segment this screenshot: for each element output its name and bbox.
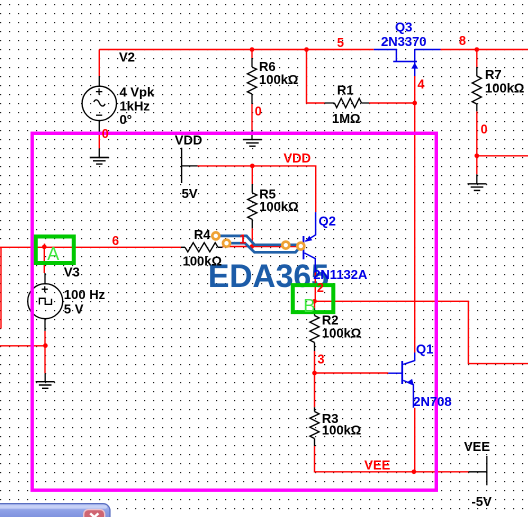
- svg-text:2N3370: 2N3370: [381, 34, 427, 49]
- ground under V3: [36, 382, 55, 389]
- VDD power symbol bar: [182, 148, 198, 183]
- transistor Q2 (PNP 2N1132A): [304, 212, 316, 272]
- transistor Q3 (JFET): [374, 50, 441, 77]
- junction VDD-R5: [250, 164, 255, 169]
- junction node 8-R7: [475, 47, 480, 52]
- svg-text:100 Hz: 100 Hz: [64, 287, 106, 302]
- svg-text:6: 6: [112, 234, 119, 248]
- resistor R2 body: [310, 316, 319, 343]
- V2 bottom lead: [98, 120, 100, 135]
- svg-text:2N1132A: 2N1132A: [313, 267, 368, 282]
- junction node 5-R6: [250, 47, 255, 52]
- svg-text:0: 0: [255, 105, 262, 119]
- wire R2 top: [314, 301, 316, 308]
- junction R7 bottom: [475, 154, 480, 159]
- connector ring 4: [297, 243, 304, 250]
- junction node B: [312, 299, 317, 304]
- svg-text:0: 0: [102, 127, 109, 141]
- resistor R4 body: [185, 243, 218, 252]
- ground under R6: [243, 140, 262, 147]
- transistor Q1 (NPN 2N708): [388, 353, 414, 408]
- wire V2 ground segment: [98, 135, 100, 148]
- svg-text:VDD: VDD: [175, 133, 202, 148]
- V3 top lead: [44, 273, 46, 284]
- wire node A row (node 6): [0, 246, 181, 248]
- wire R7 bottom to ground node 0: [476, 111, 478, 174]
- V2 top lead: [98, 76, 100, 87]
- wire R7 node right to edge: [477, 155, 528, 157]
- wire A to V3: [43, 247, 45, 273]
- resistor R1 leads: [325, 102, 369, 104]
- svg-text:VDD: VDD: [284, 151, 311, 166]
- ground lead under R6: [251, 130, 253, 140]
- wire VDD rail: [198, 166, 316, 212]
- connector ring 1: [212, 232, 219, 239]
- resistor R5 leads: [251, 184, 253, 228]
- source V3 symbol: [28, 284, 63, 319]
- resistor R7 leads: [476, 67, 478, 111]
- junction node 4-R1: [412, 101, 417, 106]
- resistor R6 leads: [251, 58, 253, 104]
- svg-text:3: 3: [318, 353, 325, 367]
- resistor R4 leads: [181, 246, 223, 248]
- wire R6 bottom to ground: [251, 104, 253, 130]
- svg-text:1: 1: [239, 233, 246, 247]
- svg-text:2N708: 2N708: [413, 394, 451, 409]
- connector ring 2: [223, 240, 230, 247]
- svg-text:A: A: [47, 244, 59, 264]
- svg-text:100kΩ: 100kΩ: [322, 326, 361, 341]
- resistor R3 leads: [314, 407, 316, 446]
- wire V3 bottom: [44, 331, 46, 373]
- wire R6 top: [251, 50, 253, 59]
- svg-text:5V: 5V: [182, 186, 198, 201]
- svg-text:1MΩ: 1MΩ: [332, 111, 360, 126]
- connector ring 3: [282, 242, 289, 249]
- resistor R6 body: [247, 67, 256, 94]
- probe box A: [36, 237, 74, 264]
- svg-text:8: 8: [459, 34, 466, 48]
- svg-text:0: 0: [481, 123, 488, 137]
- svg-text:Q1: Q1: [416, 342, 433, 357]
- wire R5 bottom: [251, 228, 253, 247]
- svg-text:100kΩ: 100kΩ: [259, 72, 298, 87]
- svg-text:-5V: -5V: [472, 494, 493, 509]
- ground lead under R7: [476, 174, 478, 184]
- svg-text:0°: 0°: [120, 112, 132, 127]
- close button X: [84, 510, 105, 517]
- svg-text:100kΩ: 100kΩ: [183, 254, 222, 269]
- junction V3 bottom: [43, 343, 48, 348]
- ground lead under V3: [44, 373, 46, 381]
- wire R3 bottom to VEE rail: [315, 446, 469, 472]
- svg-text:R4: R4: [194, 227, 211, 242]
- svg-text:5 V: 5 V: [64, 302, 84, 317]
- wire left edge vertical: [0, 247, 2, 328]
- wire node B row (node 2): [315, 301, 528, 363]
- wire R2 bottom to node 3: [314, 351, 316, 373]
- svg-text:100kΩ: 100kΩ: [485, 80, 524, 95]
- resistor R2 leads: [314, 308, 316, 351]
- junction R5 bottom node 1: [250, 244, 254, 248]
- svg-text:Q2: Q2: [319, 214, 336, 229]
- wire Q1 emitter down to VEE rail: [414, 408, 416, 472]
- wire R1 right to node 4: [369, 102, 415, 104]
- wire R3 top: [314, 373, 316, 407]
- wire node 4 vertical Q3 source down: [414, 76, 416, 353]
- svg-text:B: B: [303, 296, 315, 316]
- BLACK COMPONENT PARTS: [45, 58, 487, 485]
- source V2 symbol: [82, 86, 116, 120]
- dialog window titlebar: [0, 504, 110, 517]
- resistor R7 body: [472, 76, 481, 104]
- svg-text:VEE: VEE: [364, 458, 390, 473]
- resistor R3 body: [310, 412, 319, 439]
- svg-text:R1: R1: [337, 83, 354, 98]
- junction node 5-R1: [304, 47, 309, 52]
- ground under R7: [468, 184, 487, 191]
- thick selected wire lower: [227, 243, 301, 252]
- thick selected wire upper: [216, 236, 301, 245]
- junction node A: [42, 245, 47, 250]
- resistor R5 body: [248, 193, 257, 220]
- wire V3 node left to edge: [0, 345, 45, 347]
- wire R5 top: [251, 166, 253, 184]
- wire R4 to Q2 base (node 1): [223, 246, 304, 248]
- VEE power symbol bar: [469, 456, 487, 485]
- junction VEE rail: [412, 470, 417, 475]
- svg-text:4: 4: [418, 78, 425, 92]
- wire node 3 to Q1 base: [315, 372, 389, 374]
- svg-text:5: 5: [337, 36, 344, 50]
- ground lead under V2: [98, 148, 100, 157]
- wire Q2 collector down to node B: [314, 272, 316, 301]
- svg-text:EDA365: EDA365: [208, 258, 329, 294]
- svg-text:100kΩ: 100kΩ: [322, 423, 361, 438]
- resistor R1 body: [334, 98, 361, 107]
- svg-text:2: 2: [317, 281, 324, 295]
- wire top rail right (node 8): [441, 49, 528, 51]
- svg-text:Q3: Q3: [395, 20, 412, 35]
- svg-text:4 Vpk: 4 Vpk: [120, 85, 155, 100]
- svg-text:VEE: VEE: [464, 439, 490, 454]
- ground under V2: [90, 158, 109, 165]
- junction node 3: [312, 371, 317, 376]
- svg-text:V3: V3: [64, 264, 80, 279]
- wire node A tick: [44, 244, 46, 248]
- wire V2 top lead drop: [98, 50, 100, 77]
- wire node 5 down to R1: [307, 50, 325, 104]
- svg-text:100kΩ: 100kΩ: [259, 199, 298, 214]
- probe box B: [293, 285, 334, 312]
- wire top rail left (node 5): [99, 49, 374, 51]
- svg-text:V2: V2: [119, 50, 135, 65]
- selection rectangle magenta: [32, 133, 436, 490]
- wire R7 top: [476, 50, 478, 68]
- V3 bottom lead: [44, 318, 46, 331]
